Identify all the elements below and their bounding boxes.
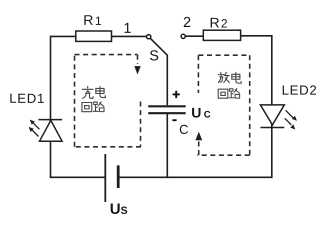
- svg-text:1: 1: [123, 21, 131, 37]
- svg-text:R1: R1: [83, 12, 102, 28]
- svg-text:LED1: LED1: [9, 91, 45, 106]
- svg-text:R2: R2: [210, 15, 228, 31]
- svg-text:LED2: LED2: [282, 83, 318, 98]
- svg-text:C: C: [179, 122, 188, 137]
- svg-text:2: 2: [183, 15, 191, 31]
- svg-text:S: S: [149, 48, 159, 64]
